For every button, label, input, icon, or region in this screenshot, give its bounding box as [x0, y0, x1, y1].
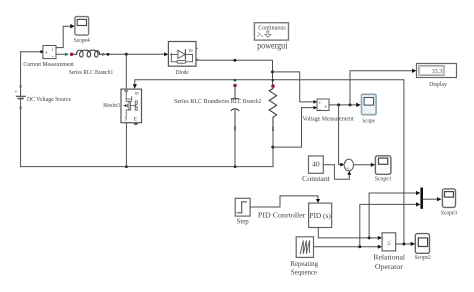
wire mux output to Scope3	[423, 198, 437, 200]
port mark below capacitor	[234, 126, 236, 131]
wire PID branch up to mux	[369, 193, 416, 238]
Diode block D1	[168, 42, 198, 67]
svg-text:PID Conrtoller: PID Conrtoller	[258, 210, 306, 219]
Display block	[417, 64, 457, 78]
wire Mosfet drain vertical	[125, 54, 127, 89]
svg-text:-: -	[319, 106, 321, 112]
wire VM to sum	[339, 105, 341, 165]
arrow into Scope4	[70, 24, 74, 29]
svg-text:Display: Display	[429, 81, 447, 88]
Scope1 block	[375, 156, 391, 175]
svg-text:Sequence: Sequence	[291, 270, 317, 277]
node capacitor top tap	[233, 59, 236, 62]
Scope3 block	[442, 189, 455, 208]
Step block	[235, 198, 250, 216]
arrow into Scope1	[371, 163, 375, 167]
svg-text:Mosfet1: Mosfet1	[103, 102, 120, 109]
node red capacitor terminal	[233, 84, 237, 88]
Scope4 block	[75, 17, 89, 35]
wire resistor to junction and rail	[272, 131, 274, 167]
svg-text:PID (s): PID (s)	[309, 211, 331, 220]
arrow into VM minus	[314, 106, 318, 110]
node resistor bottom junction	[271, 146, 274, 149]
Scope2 block	[415, 234, 429, 254]
arrow into sum	[340, 163, 344, 167]
svg-text:Series RLC Branc: Series RLC Branc	[174, 98, 218, 105]
node display tap	[349, 103, 352, 106]
node after inductor	[107, 53, 110, 56]
arrow into Diode	[164, 52, 168, 56]
wire Mosfet source to rail	[125, 123, 127, 167]
arrow into Scope2	[411, 242, 415, 246]
arrow into relational b	[378, 245, 382, 249]
svg-text:Scope: Scope	[362, 117, 375, 124]
svg-text:E: E	[133, 117, 137, 122]
arrow into Scope	[356, 103, 361, 107]
Scope block (highlighted)	[362, 94, 377, 114]
capacitor C1 Series RLC Branch	[231, 87, 239, 126]
svg-text:+: +	[45, 50, 49, 57]
svg-text:33.3: 33.3	[432, 69, 442, 75]
wire CM output to inductor	[56, 53, 65, 55]
arrow into Display	[412, 69, 416, 73]
arrow into Scope3	[437, 197, 441, 201]
node PID to mux tap	[368, 236, 371, 239]
arrow into mux input1	[416, 191, 420, 195]
svg-text:m: m	[189, 49, 193, 54]
wire sum to Scope1	[354, 164, 372, 166]
svg-text:Scope2: Scope2	[415, 254, 431, 261]
wire Constant to sum	[323, 165, 349, 180]
wire relational output to Scope2	[396, 243, 411, 245]
Repeating Sequence block	[296, 237, 313, 258]
wire RS branch up to mux	[360, 204, 416, 246]
svg-text:Voltage Measurement: Voltage Measurement	[303, 115, 354, 122]
inductor L1 Series RLC Branch1	[74, 50, 102, 57]
svg-text:Continuous: Continuous	[258, 25, 286, 32]
svg-text:DC Voltage Source: DC Voltage Source	[27, 96, 71, 103]
node teal port	[65, 53, 69, 56]
ground rail wire	[21, 166, 273, 168]
Relational Operator block	[382, 233, 396, 251]
wire resistor drop	[272, 72, 274, 85]
port mark after inductor	[102, 53, 105, 56]
wire Step to PID	[250, 196, 318, 207]
port mark below resistor	[272, 127, 274, 131]
wire Repeating Sequence output	[314, 246, 379, 248]
wire to Display	[350, 71, 412, 105]
wire PID output	[318, 228, 378, 238]
svg-text:Scope1: Scope1	[375, 175, 392, 182]
Constant block	[309, 156, 324, 173]
svg-text:Current Measurement: Current Measurement	[23, 61, 74, 68]
node red resistor terminal	[271, 84, 275, 88]
powergui block	[254, 23, 288, 40]
arrow into relational a	[378, 236, 382, 240]
mux block	[420, 188, 423, 209]
wire VM output to Scope	[329, 104, 356, 106]
node gate line crossing	[272, 79, 274, 81]
svg-text:Step: Step	[237, 219, 250, 226]
svg-text:≤: ≤	[387, 239, 391, 247]
node rail capacitor	[234, 165, 237, 168]
node rail mosfet S	[125, 165, 128, 168]
wire Diode output bus	[196, 60, 273, 72]
node junction to Mosfet drain	[125, 53, 128, 56]
Voltage Measurement block	[317, 99, 329, 112]
node VM plus tap	[271, 70, 274, 73]
svg-text:+: +	[346, 166, 350, 172]
DC voltage source V1	[14, 85, 25, 109]
Current Measurement block	[43, 46, 56, 60]
arrow into PID top	[316, 199, 320, 203]
node CM input	[40, 50, 43, 53]
arrow into mux input2	[416, 202, 420, 206]
svg-text:-: -	[345, 160, 347, 166]
wire capacitor to rail	[234, 131, 236, 167]
svg-text:Series RLC Branch1: Series RLC Branch1	[69, 69, 113, 76]
node teal capacitor top	[234, 79, 237, 82]
wire DC source left loop vertical	[20, 52, 22, 167]
node red terminal inductor	[70, 53, 74, 57]
svg-text:S: S	[125, 117, 128, 122]
arrow into sum bottom	[347, 171, 351, 175]
node RS to mux tap	[358, 245, 361, 248]
svg-text:Scope3: Scope3	[441, 209, 457, 216]
svg-text:Diode: Diode	[176, 69, 189, 76]
svg-text:Relational: Relational	[373, 254, 405, 262]
PID Controller block	[309, 203, 332, 227]
Mosfet block Q1	[121, 89, 142, 125]
wire CM i-output up to Scope4	[56, 26, 71, 47]
wire gate control line from relational operator	[135, 80, 404, 244]
wire DC source top to Current Measurement input	[21, 51, 42, 53]
svg-text:40: 40	[312, 159, 320, 168]
svg-text:Repeating: Repeating	[290, 261, 318, 268]
resistor R1 Series RLC Branch2	[269, 88, 276, 127]
wire VM minus branch	[273, 108, 316, 148]
sum block	[344, 159, 353, 172]
node gate feedback tap	[402, 243, 405, 246]
wire inductor to Diode	[105, 53, 166, 55]
svg-text:Series RLC Branch2: Series RLC Branch2	[216, 98, 261, 105]
svg-text:Constant: Constant	[302, 176, 330, 183]
svg-text:Scope4: Scope4	[74, 37, 91, 44]
svg-text:m: m	[135, 91, 139, 96]
wire VM plus branch	[273, 72, 316, 102]
arrow into VM plus	[314, 100, 318, 104]
arrow into Mosfet gate	[133, 84, 137, 88]
svg-text:-: -	[52, 54, 54, 60]
svg-text:powergui: powergui	[257, 40, 288, 50]
node sum tap	[337, 103, 340, 106]
svg-text:Operator: Operator	[375, 263, 404, 271]
